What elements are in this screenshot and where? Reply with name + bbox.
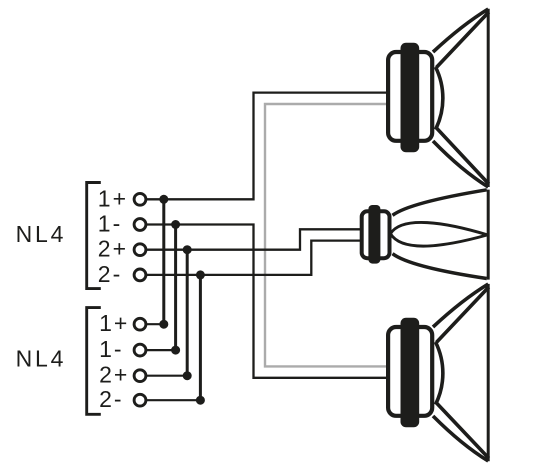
terminal circle NL4-1 pin 2+ [134, 244, 146, 256]
front baffle line (bottom woofer mouth) [487, 284, 490, 461]
wire stub NL4-2 pin 1+ [146, 323, 164, 325]
wire 1+ (NL4-1 pin 1+ to top woofer upper terminal) [146, 93, 388, 200]
terminal circle NL4-2 pin 1- [134, 344, 146, 356]
junction dot node 1+ upper [159, 195, 168, 204]
speaker SP3 magnet [388, 327, 432, 416]
speaker SP3 (bottom woofer) cone [433, 284, 489, 461]
bus wire 1- [174, 225, 177, 351]
terminal circle NL4-2 pin 2+ [134, 370, 146, 382]
svg-text:2-: 2- [99, 386, 123, 412]
wire 2+ (NL4-1 pin 2+ to horn driver upper terminal) [146, 229, 363, 249]
junction dot node 2- upper [196, 270, 205, 279]
junction dot node 2- lower [196, 396, 205, 405]
svg-text:NL4: NL4 [16, 221, 67, 247]
svg-text:NL4: NL4 [16, 346, 67, 372]
bus wire 1+ (vertical link between connectors) [162, 199, 165, 324]
wire 1- (NL4-1 pin 1- to bottom woofer lower terminal) [146, 225, 387, 378]
wire stub NL4-2 pin 2+ [146, 375, 187, 377]
svg-text:1+: 1+ [98, 185, 128, 211]
speaker SP1 (top woofer) cone [433, 9, 489, 187]
speaker SP2 pole piece [368, 205, 380, 264]
speaker SP3 pole piece [401, 318, 420, 427]
junction dot node 1+ lower [159, 320, 168, 329]
wire 2- (NL4-1 pin 2- to horn driver lower terminal) [146, 241, 363, 275]
junction dot node 1- lower [171, 346, 180, 355]
svg-text:2-: 2- [98, 261, 122, 287]
terminal circle NL4-2 pin 2- [134, 394, 146, 406]
wire link (gray parallel wire top woofer lower terminal to bottom woofer upper terminal) [265, 104, 387, 366]
speaker SP2 diaphragm lens [391, 222, 488, 246]
bracket connector NL4-2 [87, 308, 101, 415]
wire stub NL4-2 pin 2- [146, 399, 200, 401]
speaker SP1 pole piece [401, 43, 420, 152]
terminal circle NL4-1 pin 1+ [134, 193, 146, 205]
wire stub NL4-2 pin 1- [146, 349, 176, 351]
junction dot node 2+ upper [183, 245, 192, 254]
svg-text:2+: 2+ [99, 362, 129, 388]
junction dot node 1- upper [171, 220, 180, 229]
terminal circle NL4-1 pin 1- [134, 219, 146, 231]
svg-text:1+: 1+ [99, 310, 129, 336]
terminal circle NL4-1 pin 2- [134, 269, 146, 281]
svg-text:2+: 2+ [98, 236, 128, 262]
front baffle line (horn mouth) [487, 190, 490, 280]
svg-text:1-: 1- [98, 211, 122, 237]
bus wire 2- [199, 275, 202, 400]
bracket connector NL4-1 [87, 183, 101, 289]
speaker SP2 magnet [362, 211, 390, 258]
speaker SP1 magnet [388, 52, 432, 141]
terminal circle NL4-2 pin 1+ [134, 318, 146, 330]
bus wire 2+ [186, 250, 189, 376]
junction dot node 2+ lower [183, 371, 192, 380]
speaker SP2 (horn driver) flare [393, 190, 487, 279]
svg-text:1-: 1- [99, 336, 123, 362]
front baffle line (top woofer mouth) [487, 9, 490, 187]
